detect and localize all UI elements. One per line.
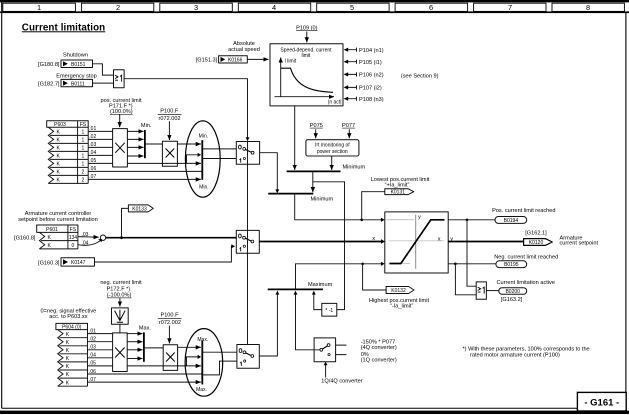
svg-text:.05: .05: [89, 361, 96, 367]
svg-text:Emergency stop: Emergency stop: [56, 73, 96, 79]
binector output B0194: [495, 217, 527, 224]
svg-text:|n act|: |n act|: [328, 100, 341, 106]
svg-text:P109 (0): P109 (0): [296, 25, 318, 31]
svg-text:limit: limit: [302, 53, 311, 59]
svg-text:P108 (n3): P108 (n3): [359, 97, 384, 103]
svg-text:Pos. current limit reached: Pos. current limit reached: [492, 208, 555, 214]
I2t monitoring block: [306, 140, 359, 156]
svg-text:.06: .06: [89, 166, 96, 172]
svg-text:P104 (n1): P104 (n1): [359, 48, 384, 54]
svg-text:Current limitation: Current limitation: [22, 22, 105, 33]
wire P075 arrow: [315, 129, 317, 138]
switch S1: [236, 142, 259, 165]
connector K0131: [385, 189, 414, 196]
svg-text:[G180.8]: [G180.8]: [38, 62, 60, 68]
svg-text:.04: .04: [82, 241, 89, 247]
svg-text:acc. to P603.xx: acc. to P603.xx: [49, 314, 87, 320]
labels .01-.07 bottom table: [89, 328, 96, 383]
wires P604 rows into X3: [88, 334, 113, 366]
svg-text:[G163.2]: [G163.2]: [501, 297, 523, 303]
svg-text:.04: .04: [89, 353, 96, 359]
wire node to K0133: [122, 208, 129, 237]
wire K0166 to speed block: [247, 58, 268, 60]
svg-text:(100.0%): (100.0%): [110, 109, 133, 115]
svg-text:(1Q converter): (1Q converter): [361, 358, 397, 364]
svg-text:I limit: I limit: [285, 59, 297, 65]
inverter box (neg of pos limit): [112, 308, 129, 324]
svg-text:rated motor armature current (: rated motor armature current (P100): [470, 353, 560, 359]
speed-dependent current limit block: [270, 44, 343, 106]
binector B0111 (Emergency stop): [61, 79, 93, 87]
wires P603 rows into X1: [88, 131, 112, 163]
svg-text:2: 2: [82, 170, 85, 176]
svg-text:1: 1: [82, 138, 85, 144]
wire max bar to S3 input 0: [202, 351, 237, 353]
wire P109 arrow: [306, 32, 308, 43]
svg-text:.01: .01: [89, 328, 96, 334]
svg-text:Maximum: Maximum: [308, 282, 333, 288]
svg-text:Min.: Min.: [141, 123, 152, 129]
wire speed block output down to minimum bar 1: [294, 106, 296, 170]
svg-text:2: 2: [116, 3, 120, 12]
svg-text:[G162.1]: [G162.1]: [525, 231, 547, 237]
svg-text:neg. current limit: neg. current limit: [100, 280, 142, 286]
svg-text:B0200: B0200: [505, 289, 520, 295]
minimum junction bar 2: [268, 193, 313, 195]
multiply by -1 box: [322, 303, 337, 316]
svg-text:P100.F: P100.F: [160, 312, 179, 318]
svg-text:K0147: K0147: [71, 260, 86, 266]
wire X2 output to min bar: [177, 143, 201, 145]
wire P100 arrow into X4: [168, 326, 170, 344]
svg-text:“+Ia_limit”: “+Ia_limit”: [385, 183, 410, 189]
binector output B0200: [499, 288, 527, 295]
svg-text:current setpoint: current setpoint: [560, 241, 599, 247]
connector K0147: [61, 258, 95, 266]
switch S3: [237, 345, 259, 369]
wire 4Q switch output up to maximum bar: [296, 295, 320, 350]
svg-text:[G160.8]: [G160.8]: [14, 236, 36, 242]
svg-text:1: 1: [82, 162, 85, 168]
wire row .06 to min bar: [88, 170, 201, 172]
svg-text:Minimum: Minimum: [311, 197, 334, 203]
svg-text:Min.: Min.: [199, 133, 208, 139]
svg-text:.07: .07: [89, 174, 96, 180]
svg-text:1: 1: [82, 130, 85, 136]
wires X1 outputs to min bar A: [127, 131, 143, 156]
source table P603: [47, 121, 88, 184]
svg-text:Current limitation active: Current limitation active: [497, 280, 555, 286]
svg-text:.03: .03: [89, 345, 96, 351]
wire P100 arrow into X2: [168, 121, 170, 140]
svg-text:P077: P077: [342, 123, 355, 129]
wire row .05 bypass to min bar: [127, 162, 200, 164]
connector K0133: [128, 205, 153, 213]
svg-text:Minimum: Minimum: [343, 164, 366, 170]
limiter block U2: [385, 212, 448, 273]
svg-text:B0111: B0111: [71, 81, 85, 87]
min selection bar (ellipse): [185, 121, 220, 197]
wire bar1 to minimum bar 2: [312, 171, 314, 192]
svg-text:K0166: K0166: [228, 58, 243, 64]
svg-text:[G160.3]: [G160.3]: [38, 260, 60, 266]
svg-text:7: 7: [508, 3, 512, 12]
wire P601 row .04 to selector (curved): [78, 241, 100, 245]
svg-text:.04: .04: [89, 150, 96, 156]
input stubs P104-P108: [344, 48, 357, 101]
switch S2: [236, 230, 259, 253]
svg-text:Neg. current limit reached: Neg. current limit reached: [494, 255, 558, 261]
svg-text:(see Section 9): (see Section 9): [401, 74, 439, 80]
svg-text:134: 134: [69, 235, 78, 241]
wire limiter y output to K0120: [448, 241, 523, 243]
labels .01-.07 top table: [89, 126, 96, 180]
svg-text:r072.002: r072.002: [159, 320, 181, 326]
wire P077 arrow: [348, 129, 350, 138]
svg-text:x: x: [438, 236, 441, 242]
wire row .07 to min bar: [88, 178, 201, 180]
node on lower limit wire: [361, 263, 364, 266]
svg-text:.01: .01: [89, 126, 96, 132]
wire bar2 to limiter upper input: [295, 194, 383, 220]
node on B0195 wire: [454, 263, 457, 266]
wire row .05 jog up to max bar: [187, 357, 200, 366]
svg-text:P604 (0): P604 (0): [62, 325, 82, 331]
or-gate U1: [114, 70, 125, 88]
wire row .05 bypass to max bar: [127, 365, 201, 367]
wire or-gate output / select line down to switches: [124, 79, 247, 139]
svg-text:8: 8: [586, 3, 590, 12]
svg-text:* -1: * -1: [325, 308, 333, 314]
svg-text:K0131: K0131: [391, 190, 406, 196]
main setpoint wire selector to S2: [106, 237, 237, 239]
wire row .05 jog up to min bar: [187, 155, 200, 164]
max bar B: [143, 332, 145, 361]
svg-text:P603: P603: [54, 122, 66, 128]
svg-text:0: 0: [72, 243, 75, 249]
wire min bar to S1 input 1: [202, 158, 236, 160]
setpoint table P601: [37, 225, 78, 249]
svg-text:P100.F: P100.F: [160, 108, 179, 114]
wire min bar to S1 input 0: [202, 148, 236, 150]
svg-text:P601: P601: [46, 227, 58, 233]
wire node to K0132: [363, 264, 387, 290]
svg-text:Shutdown: Shutdown: [63, 52, 88, 58]
wire X4 output to max bar: [178, 346, 201, 348]
svg-text:6: 6: [429, 3, 433, 12]
wire bar B to X4: [144, 347, 163, 349]
min bar A: [144, 130, 146, 158]
node at K0133 branch: [120, 236, 123, 239]
svg-text:1: 1: [82, 154, 85, 160]
svg-text:1Q/4Q converter: 1Q/4Q converter: [321, 379, 362, 385]
svg-text:P172.F *): P172.F *): [107, 286, 131, 292]
svg-text:.02: .02: [89, 134, 96, 140]
svg-text:FS: FS: [80, 122, 87, 128]
multiplier X3 (neg limit): [113, 333, 128, 372]
svg-text:x: x: [372, 236, 375, 242]
svg-text:2: 2: [82, 178, 85, 184]
wire P171 arrow into X1: [119, 114, 121, 127]
connector K0120 (armature current setpoint): [524, 239, 553, 246]
wire *-1 output up to maximum bar: [314, 295, 322, 310]
svg-text:.03: .03: [89, 142, 96, 148]
minimum junction bar 1: [287, 170, 341, 172]
page frame top bar: [0, 0, 629, 2]
wire U3 output to B0200: [486, 290, 498, 292]
svg-text:- G161 -: - G161 -: [584, 398, 619, 409]
svg-text:B0195: B0195: [504, 262, 519, 268]
svg-text:Max.: Max.: [197, 337, 208, 343]
wire limiter to B0194: [448, 219, 495, 221]
svg-text:1: 1: [37, 3, 41, 12]
svg-text:B0151: B0151: [71, 62, 86, 68]
svg-text:Min.: Min.: [199, 184, 208, 190]
svg-text:r072.002: r072.002: [159, 116, 181, 122]
node on upper limit wire: [360, 219, 363, 222]
connector K0132: [386, 287, 414, 295]
multiplier X2 (P100 scaling): [162, 141, 177, 166]
svg-text:.05: .05: [89, 158, 96, 164]
wire bar A to X2: [145, 143, 163, 145]
svg-text:B0194: B0194: [504, 218, 519, 224]
wire inverter to X3: [119, 324, 121, 333]
wire node to or-gate U3 upper input: [467, 220, 476, 286]
binector output B0195: [496, 261, 527, 268]
wire S3 output up to maximum bar: [259, 295, 277, 356]
svg-text:K0133: K0133: [132, 206, 147, 212]
svg-text:.07: .07: [89, 377, 96, 383]
svg-text:K0120: K0120: [529, 240, 544, 246]
svg-text:Max.: Max.: [139, 325, 152, 331]
svg-text:P075: P075: [310, 123, 323, 129]
svg-text:y: y: [418, 214, 421, 220]
wire K0147 to S2 input 1: [95, 246, 235, 262]
source table P604: [56, 323, 88, 386]
svg-text:3: 3: [194, 3, 198, 12]
wire S2 output to limiter x input: [259, 241, 383, 243]
svg-text:FS: FS: [70, 227, 77, 233]
1Q/4Q converter switch: [314, 338, 336, 362]
svg-text:actual speed: actual speed: [228, 47, 260, 53]
4Q switch right stubs: [336, 345, 347, 355]
svg-text:“-Ia_limit”: “-Ia_limit”: [390, 303, 413, 309]
svg-text:I²t monitoring of: I²t monitoring of: [315, 143, 350, 149]
svg-text:.03: .03: [82, 232, 89, 238]
wire B0111 to or-gate: [93, 82, 114, 84]
or-gate U3: [476, 282, 486, 299]
svg-text:P105 (i1): P105 (i1): [359, 60, 382, 66]
svg-text:5: 5: [350, 3, 354, 12]
wire limiter to B0195: [448, 263, 496, 265]
svg-text:.02: .02: [89, 337, 96, 343]
header column strip: [3, 3, 625, 11]
wire B0151 to or-gate: [93, 64, 114, 75]
svg-text:P107 (i2): P107 (i2): [359, 86, 382, 92]
G161 sheet label box: [577, 392, 626, 411]
maximum junction bar: [268, 288, 323, 290]
svg-text:4: 4: [272, 3, 276, 12]
wire row .06 to max bar: [88, 373, 202, 375]
max selection bar (ellipse): [185, 329, 223, 397]
svg-text:setpoint before current limita: setpoint before current limitation: [18, 217, 98, 223]
wires X3 outputs to max bar B: [127, 334, 142, 359]
svg-text:y: y: [450, 236, 453, 242]
multiplier X4 (P100 scaling neg): [163, 345, 177, 371]
svg-text:K0132: K0132: [391, 288, 406, 294]
wire node to or-gate U3 lower input: [455, 264, 476, 295]
binector B0151 (Shutdown): [61, 60, 93, 68]
svg-text:Max.: Max.: [196, 387, 207, 393]
svg-text:1: 1: [82, 146, 85, 152]
selector node (adder circle): [100, 235, 105, 240]
svg-text:power section: power section: [317, 149, 348, 155]
svg-text:[G182.7]: [G182.7]: [38, 82, 60, 88]
wire max bar to S3 input 1: [202, 361, 237, 375]
svg-text:(-100.0%): (-100.0%): [107, 293, 132, 299]
svg-text:.06: .06: [89, 369, 96, 375]
svg-text:(4Q converter): (4Q converter): [361, 345, 397, 351]
wire P601 row .03 to selector: [78, 236, 99, 239]
node on B0194 wire: [466, 219, 469, 222]
wire maximum bar to limiter lower input: [296, 264, 383, 290]
wire bar1 branch to *-1: [313, 182, 345, 310]
connector K0166 (absolute actual speed): [219, 56, 248, 64]
svg-text:[G151.3]: [G151.3]: [196, 58, 218, 64]
wire S1 output down to minimum bar 2: [260, 153, 278, 191]
wire I2t output down to minimum bar 1: [331, 156, 333, 170]
wire P172 arrow into inverter: [119, 298, 121, 306]
svg-text:P106 (n2): P106 (n2): [359, 73, 384, 79]
wire 1Q/4Q label arrow into switch: [325, 365, 327, 378]
multiplier X1 (pos limit): [113, 129, 128, 167]
wire node to K0131: [362, 192, 385, 220]
wire row .07 to max bar: [88, 381, 201, 383]
